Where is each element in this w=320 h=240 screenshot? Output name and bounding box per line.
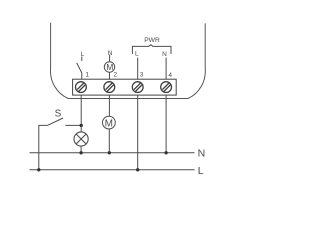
svg-text:L: L	[135, 51, 139, 58]
junction dot lamp on N rail	[79, 151, 82, 154]
svg-text:S: S	[55, 108, 62, 119]
lamp (circle with X)	[74, 132, 88, 146]
wire terminal 2 down to motor M	[108, 95, 110, 116]
wire terminal 3 down to L rail	[137, 95, 139, 170]
wire switch to lamp junction	[65, 124, 81, 126]
svg-text:1: 1	[85, 72, 89, 79]
svg-text:M: M	[106, 62, 113, 72]
junction dot switch/lamp/terminal1	[80, 124, 83, 127]
wire PWR N to terminal 4	[165, 58, 167, 80]
wire terminal 4 down to N rail	[165, 95, 167, 153]
terminal screw 1	[76, 82, 87, 93]
junction dot switch branch on L rail	[37, 168, 40, 171]
svg-text:N: N	[198, 148, 206, 160]
svg-text:N: N	[108, 50, 113, 57]
svg-text:2: 2	[114, 72, 118, 79]
PWR bracket over terminals 3 and 4	[132, 45, 171, 54]
switch S blade	[47, 118, 63, 125]
wire lamp to N rail	[80, 146, 82, 153]
motor M external (below terminal 2)	[103, 116, 116, 129]
device housing outline	[50, 23, 205, 99]
motor M internal (above terminal 2)	[104, 62, 114, 72]
junction dot terminal 3 on L rail	[136, 168, 139, 171]
wire terminal 1 down to lamp	[80, 95, 82, 132]
svg-text:PWR: PWR	[144, 37, 160, 44]
svg-text:M: M	[105, 118, 113, 129]
junction dot motor on N rail	[108, 151, 111, 154]
wire PWR L to terminal 3	[137, 58, 139, 79]
terminal screw 3	[132, 82, 143, 93]
svg-text:4: 4	[168, 72, 172, 79]
wire L rail up to switch S	[39, 125, 48, 169]
wire N down to motor M (internal)	[109, 55, 111, 62]
svg-text:3: 3	[140, 71, 144, 78]
wire motor to terminal 2	[109, 72, 111, 79]
wire blade to terminal 1	[81, 73, 83, 79]
internal switch blade (terminal 1)	[77, 63, 82, 73]
terminal block	[73, 79, 177, 95]
wire L down to internal switch	[81, 57, 83, 62]
terminal screw 4	[161, 82, 172, 93]
L rail	[30, 169, 195, 171]
svg-text:L: L	[81, 51, 85, 58]
svg-text:L: L	[198, 165, 204, 177]
terminal screw 2	[104, 82, 115, 93]
N rail	[30, 152, 195, 154]
wire motor to N rail	[108, 129, 110, 153]
junction dot terminal 4 on N rail	[164, 151, 167, 154]
svg-text:N: N	[162, 51, 167, 58]
